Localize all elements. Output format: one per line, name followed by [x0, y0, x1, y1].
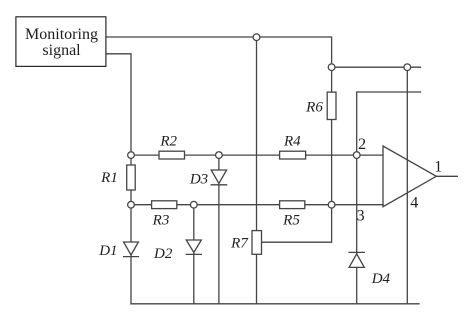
svg-text:signal: signal [42, 42, 81, 59]
wire: supply stub at y=67 from R6 column to right [332, 66, 421, 68]
wire: monitoring box lower output to left column [106, 54, 131, 155]
resistor R3 [152, 201, 177, 209]
wire: pin4 column from node at y=67 down to bottom rail [406, 67, 408, 304]
resistor R5 [280, 201, 305, 209]
diode D1 [124, 242, 139, 257]
diode D3 [211, 170, 226, 185]
resistor R1 [127, 165, 136, 190]
svg-text:R2: R2 [159, 133, 177, 149]
node: junction on top bus [253, 34, 260, 41]
node: pin 3 junction [328, 201, 335, 208]
wire: R6 column from y=67 node down to pin3 node [331, 67, 333, 205]
resistor R2 [159, 151, 185, 159]
node: left column row1 [128, 152, 135, 159]
resistor R7 [252, 231, 262, 255]
wire: top bus from monitoring box to R6 column corner [106, 37, 332, 67]
wire: op-amp output pin 1 [436, 175, 457, 177]
node: D3 top junction on row1 [216, 152, 223, 159]
wire: feedback stub at y=92 [357, 92, 421, 155]
wire: row2 from left node to op-amp pin 3 [131, 204, 383, 206]
op-amp U1 [383, 146, 436, 207]
wire: middle column from top bus node down to R7 [256, 37, 258, 231]
wire: D3 branch from row1 node down to bottom rail [218, 155, 220, 304]
svg-text:2: 2 [358, 136, 366, 153]
wire: bottom rail [131, 303, 419, 305]
svg-text:R3: R3 [152, 213, 170, 229]
node: left column row2 [128, 201, 135, 208]
node: pin 2 junction [353, 152, 360, 159]
wire: D4 column from pin2 node down to bottom rail [356, 155, 358, 304]
svg-text:D3: D3 [189, 172, 208, 188]
svg-text:D4: D4 [371, 271, 391, 287]
svg-text:1: 1 [434, 158, 442, 175]
svg-text:D2: D2 [153, 246, 173, 262]
svg-text:R7: R7 [230, 236, 249, 252]
label: Monitoring signal [25, 26, 98, 59]
svg-text:D1: D1 [98, 243, 117, 259]
svg-text:Monitoring: Monitoring [25, 26, 98, 43]
wire: D2 branch from row2 node down to bottom rail [193, 205, 195, 304]
diode D4 [349, 252, 364, 267]
monitoring signal box [16, 17, 106, 67]
svg-text:3: 3 [357, 208, 365, 225]
svg-text:R6: R6 [305, 100, 323, 116]
node: junction at R6 top / supply stub [328, 64, 335, 71]
resistor R6 [327, 92, 336, 119]
wire: row1 from left node to op-amp pin 2 [131, 154, 383, 156]
wire: left column from node A down to bottom rail [130, 155, 132, 304]
wire: below R7 to bottom rail [256, 254, 258, 303]
resistor R4 [280, 151, 306, 159]
svg-text:R1: R1 [100, 170, 118, 186]
wire: R6 column below pin3 node to R7 tap [262, 205, 332, 243]
diode D2 [186, 240, 201, 254]
node: D2 top junction on row2 [190, 201, 197, 208]
svg-text:R4: R4 [283, 133, 301, 149]
svg-text:R5: R5 [282, 213, 300, 229]
node: junction on pin4 column at y=67 [404, 64, 411, 71]
svg-text:4: 4 [410, 194, 418, 211]
